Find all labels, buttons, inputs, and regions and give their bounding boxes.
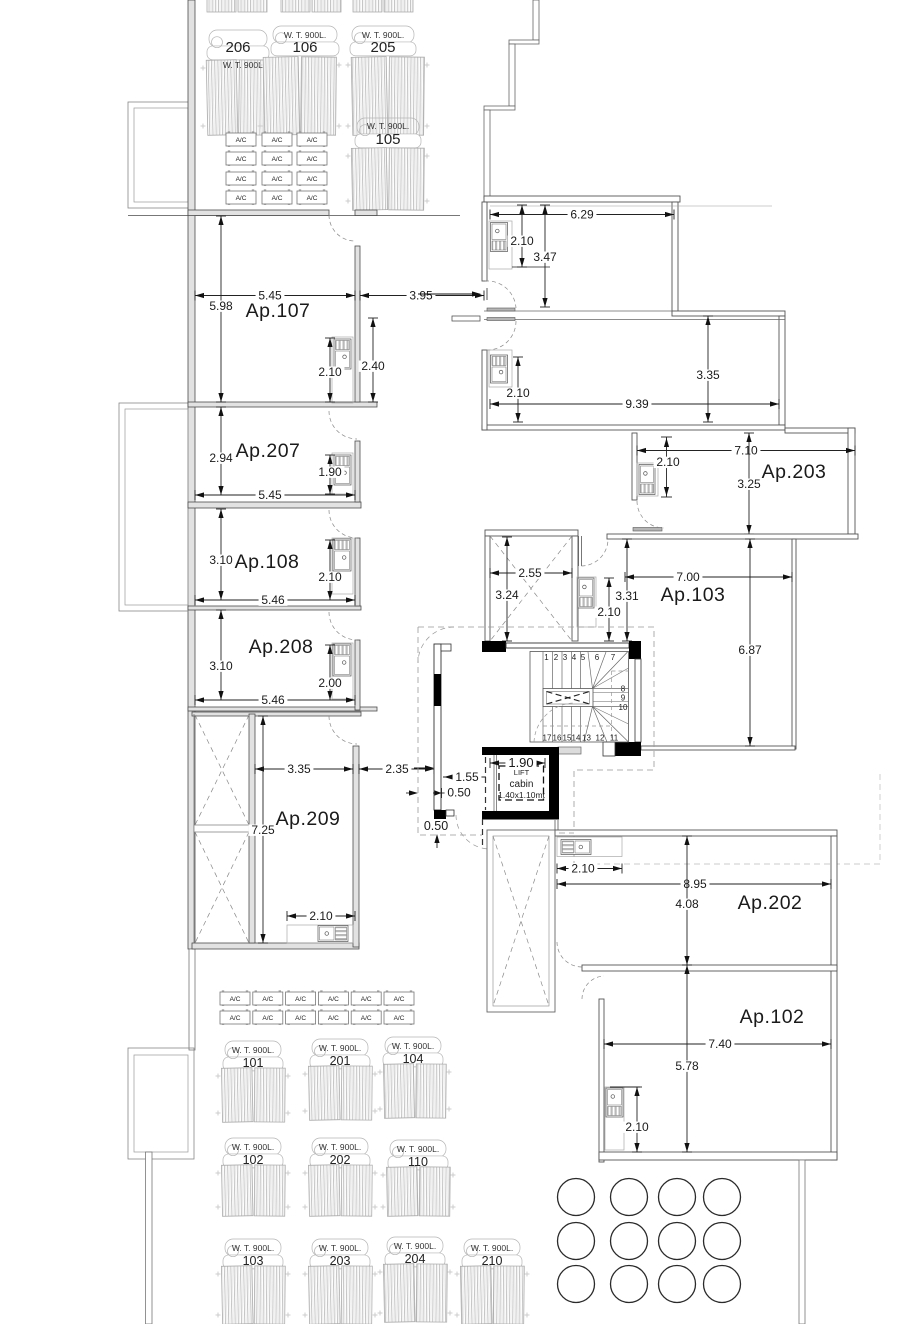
svg-text:2: 2 — [554, 653, 559, 662]
svg-text:105: 105 — [375, 131, 400, 148]
svg-text:W. T. 900L.: W. T. 900L. — [232, 1045, 274, 1055]
svg-text:Ap.103: Ap.103 — [661, 584, 726, 606]
svg-text:5.98: 5.98 — [209, 299, 233, 313]
svg-text:LIFT: LIFT — [514, 768, 530, 777]
svg-text:2.35: 2.35 — [385, 762, 409, 776]
svg-text:A/C: A/C — [394, 1015, 405, 1022]
svg-text:A/C: A/C — [230, 996, 241, 1003]
svg-text:204: 204 — [405, 1252, 426, 1266]
svg-text:4.08: 4.08 — [675, 897, 699, 911]
svg-text:A/C: A/C — [230, 1015, 241, 1022]
svg-text:A/C: A/C — [272, 137, 283, 144]
svg-text:205: 205 — [370, 39, 395, 56]
svg-text:3.35: 3.35 — [696, 368, 720, 382]
svg-text:W. T. 900L.: W. T. 900L. — [232, 1142, 274, 1152]
svg-text:10: 10 — [619, 703, 628, 712]
svg-text:206: 206 — [225, 39, 250, 56]
svg-text:9: 9 — [621, 694, 626, 703]
svg-text:5: 5 — [581, 653, 586, 662]
svg-text:7.00: 7.00 — [676, 570, 700, 584]
svg-text:5.46: 5.46 — [261, 693, 285, 707]
svg-text:2.10: 2.10 — [597, 605, 621, 619]
svg-text:A/C: A/C — [272, 176, 283, 183]
svg-text:A/C: A/C — [307, 195, 318, 202]
svg-text:106: 106 — [292, 39, 317, 56]
svg-text:2.10: 2.10 — [571, 861, 595, 875]
svg-text:A/C: A/C — [328, 996, 339, 1003]
svg-text:1.90: 1.90 — [318, 465, 342, 479]
svg-text:A/C: A/C — [236, 137, 247, 144]
svg-text:3.10: 3.10 — [209, 659, 233, 673]
svg-text:14: 14 — [572, 734, 581, 743]
svg-text:5.46: 5.46 — [261, 593, 285, 607]
svg-text:W. T. 900L.: W. T. 900L. — [319, 1243, 361, 1253]
svg-text:3.95: 3.95 — [409, 288, 433, 302]
svg-text:A/C: A/C — [361, 996, 372, 1003]
svg-text:2.10: 2.10 — [318, 365, 342, 379]
svg-text:102: 102 — [243, 1153, 264, 1167]
svg-text:2.10: 2.10 — [625, 1120, 649, 1134]
svg-text:103: 103 — [243, 1254, 264, 1268]
svg-text:1: 1 — [544, 653, 549, 662]
svg-text:A/C: A/C — [272, 156, 283, 163]
svg-text:2.10: 2.10 — [656, 455, 680, 469]
svg-text:2.10: 2.10 — [510, 234, 534, 248]
svg-text:3.31: 3.31 — [615, 589, 639, 603]
svg-text:7.25: 7.25 — [251, 823, 275, 837]
svg-text:A/C: A/C — [307, 176, 318, 183]
svg-text:4: 4 — [572, 653, 577, 662]
svg-text:2.10: 2.10 — [506, 386, 530, 400]
svg-text:201: 201 — [330, 1054, 351, 1068]
svg-text:6.29: 6.29 — [570, 207, 594, 221]
svg-text:7.10: 7.10 — [734, 443, 758, 457]
svg-text:2.55: 2.55 — [518, 566, 542, 580]
svg-text:1.40x1.10mt: 1.40x1.10mt — [498, 790, 545, 800]
svg-text:W. T. 900L.: W. T. 900L. — [367, 121, 409, 131]
svg-text:3.25: 3.25 — [737, 477, 761, 491]
svg-text:0.50: 0.50 — [424, 819, 448, 833]
svg-text:2.40: 2.40 — [361, 359, 385, 373]
svg-text:2.10: 2.10 — [318, 570, 342, 584]
svg-text:6: 6 — [595, 653, 600, 662]
svg-text:5.45: 5.45 — [258, 488, 282, 502]
svg-text:0.50: 0.50 — [447, 786, 471, 800]
svg-text:210: 210 — [482, 1254, 503, 1268]
svg-text:A/C: A/C — [236, 176, 247, 183]
svg-text:A/C: A/C — [295, 996, 306, 1003]
svg-text:W. T. 900L.: W. T. 900L. — [397, 1144, 439, 1154]
svg-text:6.87: 6.87 — [738, 643, 762, 657]
svg-text:3.10: 3.10 — [209, 553, 233, 567]
svg-text:9.39: 9.39 — [625, 397, 649, 411]
svg-text:Ap.203: Ap.203 — [762, 461, 827, 483]
svg-text:Ap.107: Ap.107 — [246, 300, 311, 322]
svg-text:203: 203 — [330, 1254, 351, 1268]
svg-text:2.10: 2.10 — [309, 909, 333, 923]
svg-text:A/C: A/C — [307, 137, 318, 144]
svg-text:W. T. 900L.: W. T. 900L. — [319, 1142, 361, 1152]
svg-text:cabin: cabin — [510, 779, 534, 790]
svg-text:1.55: 1.55 — [455, 770, 479, 784]
svg-text:101: 101 — [243, 1056, 264, 1070]
svg-text:12: 12 — [596, 734, 605, 743]
svg-text:3.35: 3.35 — [287, 762, 311, 776]
svg-text:A/C: A/C — [236, 156, 247, 163]
svg-text:2.94: 2.94 — [209, 451, 233, 465]
svg-text:104: 104 — [403, 1052, 424, 1066]
svg-text:A/C: A/C — [361, 1015, 372, 1022]
svg-text:A/C: A/C — [295, 1015, 306, 1022]
svg-text:A/C: A/C — [307, 156, 318, 163]
svg-text:2.00: 2.00 — [318, 676, 342, 690]
svg-text:W. T. 900L.: W. T. 900L. — [394, 1241, 436, 1251]
svg-text:Ap.102: Ap.102 — [740, 1006, 805, 1028]
svg-text:8: 8 — [621, 685, 626, 694]
svg-text:110: 110 — [408, 1155, 428, 1169]
svg-text:Ap.209: Ap.209 — [276, 808, 341, 830]
svg-text:5.78: 5.78 — [675, 1059, 699, 1073]
svg-text:11: 11 — [610, 734, 619, 743]
svg-text:7.40: 7.40 — [708, 1037, 732, 1051]
svg-text:Ap.202: Ap.202 — [738, 892, 803, 914]
svg-text:W. T. 900L.: W. T. 900L. — [392, 1041, 434, 1051]
svg-text:W. T. 900L.: W. T. 900L. — [471, 1243, 513, 1253]
svg-text:A/C: A/C — [236, 195, 247, 202]
svg-text:13: 13 — [582, 734, 591, 743]
svg-text:Ap.207: Ap.207 — [236, 440, 301, 462]
svg-text:3.47: 3.47 — [533, 250, 557, 264]
svg-text:A/C: A/C — [272, 195, 283, 202]
svg-text:16: 16 — [553, 734, 562, 743]
svg-text:A/C: A/C — [262, 996, 273, 1003]
svg-text:A/C: A/C — [394, 996, 405, 1003]
svg-text:3: 3 — [563, 653, 568, 662]
svg-text:Ap.208: Ap.208 — [249, 636, 314, 658]
svg-text:A/C: A/C — [328, 1015, 339, 1022]
svg-text:202: 202 — [330, 1153, 351, 1167]
svg-text:A/C: A/C — [262, 1015, 273, 1022]
svg-text:3.24: 3.24 — [495, 588, 519, 602]
svg-text:Ap.108: Ap.108 — [235, 551, 300, 573]
svg-text:W. T. 900L.: W. T. 900L. — [232, 1243, 274, 1253]
svg-text:W. T. 900L.: W. T. 900L. — [319, 1043, 361, 1053]
svg-text:7: 7 — [611, 653, 616, 662]
svg-text:17: 17 — [543, 734, 552, 743]
